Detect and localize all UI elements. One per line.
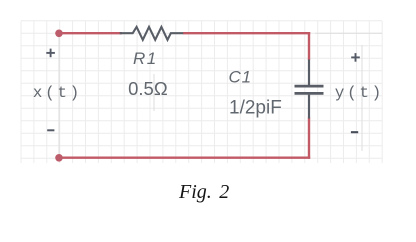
label y(t): [335, 84, 384, 102]
label C1: [229, 67, 252, 86]
svg-text:x(t): x(t): [33, 84, 82, 102]
svg-text:R1: R1: [133, 49, 158, 68]
node top-left: [55, 30, 63, 38]
value label 0.5Ω: [128, 78, 168, 99]
label R1: [133, 49, 158, 68]
svg-text:0.5Ω: 0.5Ω: [128, 78, 168, 99]
label − (output polarity): [351, 131, 358, 133]
wire top-right segment (R1 to top-right corner): [183, 32, 310, 34]
label + (input polarity): [46, 49, 55, 58]
wire bottom segment: [59, 156, 310, 158]
svg-text:1/2piF: 1/2piF: [229, 98, 282, 119]
svg-text:C1: C1: [229, 67, 252, 86]
label + (output polarity): [351, 53, 360, 62]
label − (input polarity): [47, 129, 54, 131]
wire top-left segment (node to R1): [59, 32, 122, 34]
resistor R1: [120, 27, 184, 40]
value label 1/2piF: [229, 98, 282, 119]
wire right vertical lower segment: [308, 118, 310, 159]
wire right vertical upper segment: [308, 32, 310, 60]
capacitor C1: [295, 60, 324, 119]
caption Fig. 2: [178, 181, 229, 203]
svg-text:y(t): y(t): [335, 84, 384, 102]
svg-text:Fig. 2: Fig. 2: [178, 181, 229, 203]
label x(t): [33, 84, 82, 102]
node bottom-left: [55, 154, 63, 162]
